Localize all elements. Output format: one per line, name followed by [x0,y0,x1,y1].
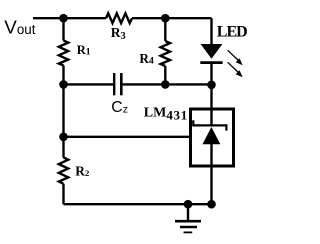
resistor R1 [59,41,68,66]
node Vout label [4,17,35,38]
node junction ref-left [59,133,68,142]
LED arrow 2 [228,62,239,72]
resistor R2 [59,158,68,184]
wire R4 top stub [164,18,166,41]
wire mid (capacitor to R4 node) [122,83,165,85]
resistor R4 [161,41,170,66]
node junction mid R4 [161,80,170,89]
LED [201,44,223,59]
transistor U1 zener bar [193,120,226,130]
wire top rail right (R3 to LED corner) [132,17,212,19]
wire reference (left rail to LM431) [64,136,191,138]
wire left rail (ref node to R2) [62,137,64,158]
svg-text:LM431: LM431 [144,106,188,123]
capacitor Cz [113,73,115,95]
op-amp U1 LM431 box [191,109,234,166]
node junction mid-left [59,80,68,89]
wire LED cathode to LM431 [210,63,212,108]
wire mid (R4 node to LED rail) [165,83,211,85]
wire left rail (R2 to bottom corner) [62,184,64,204]
LED arrow 1 [228,50,239,60]
wire left rail upper (to R1) [62,18,64,40]
wire cathode inside box [210,109,212,125]
node junction bottom right [207,200,216,209]
ground [187,204,189,220]
wire left rail (mid node to ref node) [62,84,64,136]
node junction top R4 [161,14,170,23]
wire right rail (corner to LED) [210,18,212,44]
wire top rail left (Vout to R3) [33,17,106,19]
node junction top-left [59,14,68,23]
node junction mid LED rail [207,81,216,90]
wire mid (node to capacitor) [64,83,114,85]
node junction ground [184,200,193,209]
wire bottom rail [64,203,212,205]
resistor R3 [106,13,132,23]
wire anode to bottom [210,144,212,204]
svg-text:LED: LED [217,24,247,41]
wire R4 bottom stub [164,66,166,84]
wire left rail (R1 to mid node) [62,66,64,85]
transistor U1 anode triangle [203,127,221,144]
